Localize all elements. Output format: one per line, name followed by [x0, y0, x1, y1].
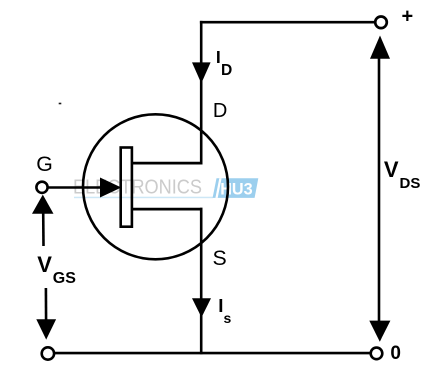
- arrowhead VDS up: [370, 36, 390, 59]
- terminal gate G: [36, 182, 47, 193]
- arrowhead VGS down: [36, 319, 56, 339]
- terminal top-right +: [375, 17, 387, 29]
- svg-text:0: 0: [390, 343, 401, 364]
- wire bottom: [55, 352, 371, 355]
- wire VGS upper segment: [42, 212, 45, 246]
- wire VDS: [378, 57, 381, 322]
- transistor Q1 channel bar fill: [119, 146, 133, 228]
- wire VGS lower segment: [45, 288, 48, 325]
- arrowhead current ID: [192, 62, 211, 83]
- wire gate: [48, 186, 112, 189]
- watermark HUB badge slash: [215, 178, 221, 198]
- svg-text:HU3: HU3: [220, 180, 253, 199]
- svg-text:G: G: [36, 152, 53, 176]
- svg-text:DS: DS: [400, 175, 421, 192]
- watermark HUB badge box: [213, 178, 259, 198]
- terminal bottom-right: [371, 348, 383, 360]
- watermark underline: [74, 197, 213, 199]
- svg-text:D: D: [221, 62, 232, 79]
- svg-text:GS: GS: [53, 270, 76, 287]
- wire drain tap: [132, 162, 203, 165]
- svg-text:s: s: [224, 310, 232, 326]
- svg-text:S: S: [213, 246, 227, 270]
- svg-text:V: V: [384, 157, 399, 182]
- wire top (drain to + terminal): [200, 21, 376, 24]
- svg-text:V: V: [37, 252, 52, 277]
- wire drain vertical: [200, 21, 203, 164]
- transistor Q1 body circle: [83, 114, 228, 259]
- stray mark: [59, 103, 62, 105]
- svg-text:+: +: [402, 6, 414, 28]
- arrowhead VDS down: [369, 321, 390, 342]
- transistor Q1 channel bar outline: [121, 148, 132, 227]
- arrowhead VGS up: [32, 195, 54, 214]
- terminal bottom-left: [42, 347, 54, 359]
- arrowhead gate: [100, 178, 121, 198]
- arrowhead current Is: [192, 298, 211, 317]
- wire source tap: [132, 208, 203, 211]
- wire source vertical: [200, 208, 203, 354]
- svg-text:D: D: [213, 100, 227, 122]
